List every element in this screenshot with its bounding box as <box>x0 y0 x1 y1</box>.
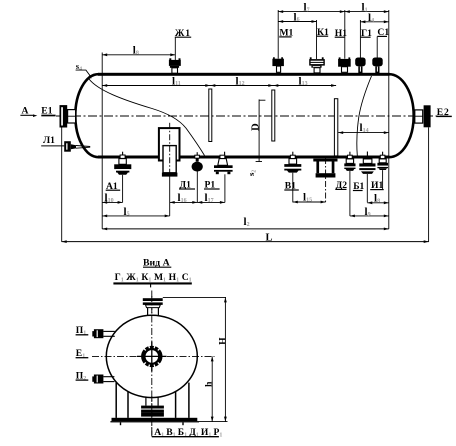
svg-text:D: D <box>250 123 261 131</box>
svg-text:L: L <box>266 232 273 243</box>
svg-text:Л1: Л1 <box>43 135 55 146</box>
svg-text:Н: Н <box>218 337 229 345</box>
svg-text:h: h <box>204 381 215 387</box>
